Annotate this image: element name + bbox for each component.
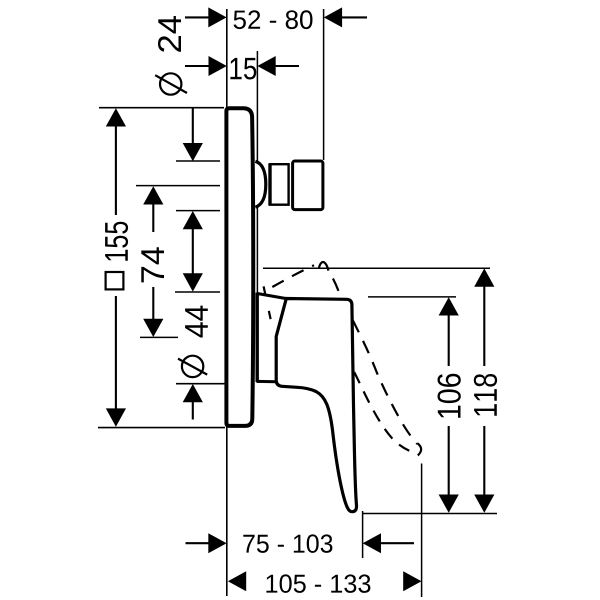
stem knob <box>293 161 323 210</box>
hub bottom extension line <box>176 383 225 385</box>
stem dome <box>255 161 265 207</box>
label 155 <box>105 222 128 261</box>
stem axis extension line <box>136 185 220 187</box>
dimension 75-103 <box>186 533 415 553</box>
dimension diameter 24 <box>155 16 203 292</box>
dimension 106 <box>438 297 461 513</box>
dashed raised-handle lower-left edge <box>264 286 272 325</box>
dashed raised-grip tip <box>418 443 422 455</box>
dimension 105-133 <box>228 571 422 593</box>
stem bottom extension line <box>176 210 220 212</box>
dimension diameter 44 <box>178 306 208 420</box>
label 24 <box>158 16 181 52</box>
label 52 - 80 <box>234 10 313 29</box>
dashed raised-handle right edge <box>329 271 418 444</box>
raised handle top extension line (118) <box>263 267 490 269</box>
dimension square 155 <box>105 108 128 427</box>
escutcheon plate <box>226 108 253 426</box>
dashed raised-handle top edge <box>264 265 314 292</box>
lever handle body and grip <box>276 299 356 512</box>
wall reference line <box>226 9 228 596</box>
dimension 52-80 <box>185 7 367 29</box>
hub left edge <box>256 293 259 382</box>
label 15 <box>230 58 256 80</box>
label 74 <box>141 247 164 282</box>
plate front face reference line <box>256 51 258 383</box>
dashed-handle tip reference line (105-133 right) <box>421 464 423 598</box>
lever top extension line (106) <box>368 296 456 298</box>
hub axis extension line <box>140 336 178 338</box>
handle bottom extension line <box>362 513 497 515</box>
dimension 118 <box>474 268 497 512</box>
dashed raised-grip left edge <box>352 369 409 451</box>
hub top edge <box>257 293 287 298</box>
stem cylinder <box>270 164 289 206</box>
hub top extension line <box>175 291 220 293</box>
dimension 15 <box>185 56 299 80</box>
dashed raised-handle peak corner <box>319 262 328 271</box>
stem top extension line <box>176 160 220 162</box>
handle tip reference line (75-103 right) <box>362 511 364 558</box>
dimension 74 <box>141 186 164 337</box>
plate bottom extension line <box>98 427 225 429</box>
hub bottom edge <box>257 380 277 383</box>
label 44 <box>185 306 208 338</box>
label 75 - 103 <box>243 534 332 553</box>
label 106 <box>438 374 461 418</box>
label 105 - 133 <box>266 574 370 593</box>
plate top extension line <box>99 107 224 109</box>
label 118 <box>474 374 497 416</box>
knob face reference line (52-80 right) <box>323 9 325 160</box>
